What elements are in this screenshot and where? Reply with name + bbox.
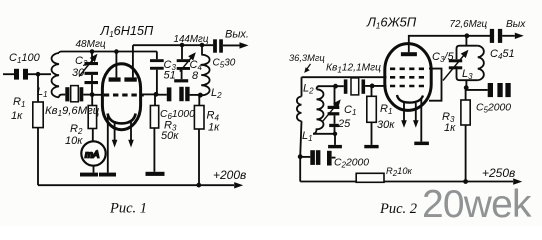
- meter mA: [81, 141, 105, 165]
- svg-text:Л16Н15П: Л16Н15П: [100, 24, 154, 39]
- svg-text:Вых: Вых: [506, 19, 526, 30]
- wire +250v bottom rail (right of R2) with arrow: [384, 181, 513, 183]
- wire L1 bottom to crystal: [59, 95, 65, 98]
- wire top rail (48 MHz side, y=51.5): [59, 52, 157, 54]
- wire top rail (144 MHz side, y=45): [133, 44, 213, 46]
- node E (tank/C5/R3 junction): [464, 85, 469, 90]
- wire +250v bottom rail (left of R2): [300, 181, 356, 183]
- capacitor C3 (trimmer, circuit 2): [449, 59, 462, 69]
- capacitor C5: [213, 39, 223, 52]
- svg-text:1к: 1к: [208, 122, 220, 134]
- capacitor C4 (trimmer): [181, 45, 183, 59]
- resistor R3 (circuit 2): [461, 100, 470, 125]
- svg-text:L1: L1: [302, 130, 313, 143]
- wire C2 top stem: [91, 52, 93, 63]
- svg-text:R1: R1: [380, 103, 392, 116]
- capacitor C4 (output, circuit 2): [490, 29, 502, 43]
- heater lead arrows U2: [403, 103, 405, 122]
- ground (R3): [146, 172, 165, 176]
- tube U1 envelope (6N15P): [102, 64, 140, 130]
- svg-text:51: 51: [164, 70, 176, 82]
- svg-text:L3: L3: [462, 68, 473, 81]
- wire R1 to ground: [371, 122, 373, 145]
- wire left branch down from corner: [301, 77, 303, 96]
- svg-text:С22000: С22000: [334, 158, 369, 170]
- svg-text:С3/5: С3/5: [432, 51, 454, 64]
- crystal KV1 9.6 MHz: [65, 87, 83, 101]
- svg-text:Рис. 2: Рис. 2: [379, 201, 417, 217]
- cathode (tube U2): [397, 95, 423, 103]
- wire node F down to +250v rail: [299, 157, 301, 182]
- svg-text:С530: С530: [213, 58, 236, 70]
- tank loop wires (C3/L3): [457, 46, 478, 80]
- wire node E to C5: [466, 89, 488, 91]
- wire node C down to R3: [154, 95, 156, 106]
- inductor L1 (circuit 2): [313, 86, 324, 134]
- svg-text:30к: 30к: [377, 119, 395, 131]
- svg-text:48Мгц: 48Мгц: [76, 39, 106, 50]
- svg-text:С1: С1: [344, 104, 356, 117]
- node L2-top on rail: [200, 43, 205, 48]
- svg-text:25: 25: [337, 118, 351, 130]
- crystal KV1 12.1 MHz: [344, 79, 365, 93]
- wire crystal row (grid-1): [318, 85, 344, 87]
- svg-text:8: 8: [192, 70, 199, 82]
- arrow of variable capacitor C3: [443, 55, 465, 81]
- svg-text:Кв112,1Мгц: Кв112,1Мгц: [326, 63, 381, 75]
- svg-text:1к: 1к: [11, 110, 23, 122]
- capacitor C1: [14, 69, 28, 80]
- wire L1 bottom row to ground node: [313, 133, 335, 135]
- inductor L3: [478, 46, 484, 80]
- capacitor C3: [156, 52, 158, 60]
- wire cathode to ground: [107, 116, 109, 173]
- anode bar (left triode): [109, 77, 121, 81]
- node left-anode on rail: [114, 49, 119, 54]
- wire node D down to R4: [198, 95, 200, 105]
- node G (crystal/R1/grid junction): [370, 84, 375, 89]
- wire meter to ground: [93, 166, 95, 173]
- heater lead arrows U1: [114, 121, 116, 142]
- grid (dashed, both triodes): [104, 94, 144, 97]
- node D (C6/L2/R4 junction): [198, 93, 203, 98]
- wire tank bottom stem: [465, 80, 467, 88]
- wire grid-2 line (screen): [302, 76, 387, 78]
- wire C1 to node: [28, 73, 38, 75]
- inductor L2 (circuit 2): [297, 97, 302, 122]
- svg-text:20wek: 20wek: [422, 183, 532, 226]
- wire output with arrow (Vykh.): [223, 44, 242, 46]
- svg-text:30: 30: [72, 67, 85, 79]
- wire node G down to R1: [371, 86, 373, 96]
- node R3 on bottom rail: [463, 179, 468, 184]
- svg-text:36,3Мгц: 36,3Мгц: [289, 53, 325, 63]
- resistor R1 (circuit 2): [367, 96, 377, 122]
- wire crystal to grid node: [365, 85, 386, 87]
- svg-text:L1: L1: [37, 86, 48, 99]
- node tank-top on rail: [465, 33, 470, 38]
- svg-text:L2: L2: [303, 83, 314, 96]
- svg-text:Вых.: Вых.: [225, 29, 249, 41]
- capacitor C6: [156, 94, 167, 96]
- node R4 on bottom rail: [196, 183, 201, 188]
- arrow of variable capacitor C1: [323, 104, 338, 122]
- svg-text:С1100: С1100: [9, 52, 41, 65]
- capacitor C1 (trimmer, circuit 2): [334, 86, 336, 106]
- wire node B to tube grid: [92, 94, 103, 96]
- inductor L2: [200, 45, 209, 95]
- resistor R4: [194, 106, 204, 130]
- wire R1 to +200v rail: [37, 128, 39, 186]
- wire +200v bottom rail: [38, 184, 234, 186]
- svg-text:+200в: +200в: [213, 168, 246, 182]
- wire cathode to ground: [420, 99, 422, 142]
- node F (L2/C2/rail junction): [298, 154, 303, 159]
- wire crystal to node B: [83, 94, 92, 96]
- ground (R1): [364, 145, 378, 148]
- tube U2 envelope (6Zh5P): [385, 44, 431, 111]
- ground (cathode U2): [414, 142, 429, 146]
- node B (crystal/C2/R2/grid junction): [90, 92, 95, 97]
- resistor R2 (circuit 2, horizontal): [356, 173, 384, 182]
- wire anode lead up and top rail: [409, 36, 490, 52]
- wire R3 to ground: [153, 128, 155, 172]
- resistor R2: [88, 106, 96, 129]
- inductor L1: [52, 53, 59, 97]
- node C2-top on rail: [90, 49, 95, 54]
- svg-text:тА: тА: [85, 150, 99, 161]
- cathode (tube U1): [108, 114, 136, 124]
- wire input lead to C1: [3, 73, 14, 75]
- node C4-top on rail: [180, 43, 185, 48]
- capacitor C2 (trimmer): [85, 62, 99, 84]
- svg-text:R210к: R210к: [386, 166, 413, 178]
- svg-text:Л16Ж5П: Л16Ж5П: [366, 15, 417, 31]
- svg-text:72,6Мгц: 72,6Мгц: [450, 19, 488, 30]
- wire left anode lead: [115, 52, 117, 78]
- ground (L1/C1): [328, 145, 342, 148]
- svg-text:R1: R1: [13, 96, 25, 109]
- svg-text:144Мгц: 144Мгц: [174, 34, 209, 45]
- wire right anode lead: [132, 45, 134, 77]
- svg-text:С52000: С52000: [476, 103, 511, 115]
- anode bar U2: [401, 52, 417, 56]
- svg-text:Рис. 1: Рис. 1: [109, 201, 147, 217]
- svg-text:10к: 10к: [65, 135, 83, 147]
- grid dashes U2 (three grids): [390, 68, 424, 71]
- arrow of variable capacitor C4: [180, 57, 193, 72]
- anode bar (right triode): [124, 77, 136, 81]
- wire output arrow (Vykh, circuit 2): [502, 35, 515, 37]
- arrow of variable capacitor C2: [79, 58, 95, 77]
- svg-text:С451: С451: [490, 48, 515, 61]
- node A (C1/R1/L1-tap junction): [36, 72, 41, 77]
- node H (L1/C1 ground junction): [333, 132, 337, 136]
- svg-text:+250в: +250в: [482, 166, 515, 180]
- wire g3-cathode bracket: [429, 69, 442, 101]
- wire L2 to C2 node: [300, 121, 301, 157]
- wire node E down to R3: [465, 88, 467, 100]
- wire node A down to R1: [37, 74, 39, 102]
- svg-text:Кв19,6Мгц: Кв19,6Мгц: [45, 105, 100, 118]
- arrow 36.3 MHz pointer: [307, 64, 311, 70]
- ground (meter): [80, 173, 98, 177]
- resistor R1: [33, 102, 43, 128]
- resistor R3: [150, 106, 158, 129]
- wire grid lead right to node C: [140, 93, 156, 95]
- wire R2 to meter: [92, 129, 94, 142]
- node C1-top: [333, 84, 338, 89]
- node C (grid2/C3/R3/C6 junction): [154, 92, 159, 97]
- svg-text:50к: 50к: [161, 130, 179, 142]
- capacitor C2 (circuit 2): [300, 156, 310, 158]
- wire node B down to R2: [91, 95, 93, 106]
- wire R4 to +200v rail: [198, 129, 200, 185]
- wire node H to ground: [334, 134, 336, 145]
- ground (cathode U1): [99, 173, 116, 177]
- wire tap from node A to coil L1: [38, 73, 51, 75]
- svg-text:L2: L2: [211, 87, 222, 100]
- capacitor C5 (circuit 2): [488, 83, 511, 97]
- wire tank stem from rail: [465, 36, 467, 46]
- svg-text:1к: 1к: [444, 122, 456, 134]
- wire R3 to +250v rail: [465, 125, 467, 182]
